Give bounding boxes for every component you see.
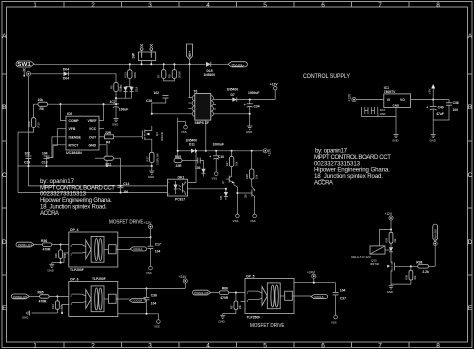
net label COOLS xyxy=(311,295,328,299)
junction xyxy=(115,103,117,105)
ground sec xyxy=(246,126,252,134)
svg-text:GND: GND xyxy=(387,290,393,294)
svg-text:T6: T6 xyxy=(194,90,198,94)
wire R6 right to VREF rail xyxy=(48,103,116,105)
svg-text:TLP250F: TLP250F xyxy=(247,315,261,319)
svg-text:+5V: +5V xyxy=(427,89,431,94)
svg-text:RT/CT: RT/CT xyxy=(69,143,80,147)
wire OP5 vcc xyxy=(294,282,336,284)
wire zeners to C7 node xyxy=(116,87,132,99)
svg-text:2: 2 xyxy=(168,194,169,196)
svg-text:IC6: IC6 xyxy=(67,112,72,116)
wire fb line2 xyxy=(18,192,168,194)
svg-text:104: 104 xyxy=(155,250,161,254)
zener D12 xyxy=(201,169,205,177)
svg-text:D04: D04 xyxy=(63,77,69,81)
relay K1 xyxy=(351,246,385,259)
svg-text:2: 2 xyxy=(91,2,95,9)
svg-text:R17: R17 xyxy=(146,156,150,162)
resistor R87 xyxy=(230,293,243,314)
net label PWM1-Q4 xyxy=(16,242,34,247)
svg-text:R36: R36 xyxy=(41,239,47,243)
svg-text:47uF: 47uF xyxy=(436,112,444,116)
zener D19 xyxy=(119,86,128,92)
resistor R35 xyxy=(54,245,67,263)
svg-text:A: A xyxy=(2,33,7,40)
connector +12V out xyxy=(263,148,271,157)
svg-text:GND: GND xyxy=(48,269,54,273)
resistor R27 column xyxy=(225,150,239,174)
svg-text:B: B xyxy=(2,104,6,111)
VSS under C17 xyxy=(146,266,152,275)
connector +12V rect out xyxy=(270,83,279,100)
wire VREF drop xyxy=(99,104,104,120)
wire OP6 bottom xyxy=(118,314,159,320)
svg-text:R38: R38 xyxy=(416,260,422,264)
net flag vertical xyxy=(433,224,438,241)
svg-text:OP_4: OP_4 xyxy=(70,228,79,232)
svg-text:1N5400: 1N5400 xyxy=(227,88,239,92)
svg-text:0.33R 5W: 0.33R 5W xyxy=(156,153,160,165)
ground under R17 xyxy=(148,171,154,179)
capacitor C13 xyxy=(42,152,50,167)
svg-text:R6: R6 xyxy=(40,107,44,111)
frame tick separators bottom xyxy=(64,342,409,348)
frame column numbers top xyxy=(33,2,440,9)
ground OP5 input xyxy=(218,314,225,324)
mosfet Q10 xyxy=(370,258,418,284)
opto driver OP_4 TLP250F xyxy=(69,228,118,272)
wire bus to T6 pin1 xyxy=(189,64,191,97)
wire OP4 vcc xyxy=(118,236,151,238)
svg-text:6: 6 xyxy=(321,2,325,9)
svg-text:4: 4 xyxy=(206,2,210,9)
svg-text:GND: GND xyxy=(218,320,224,324)
svg-text:VCC: VCC xyxy=(89,127,97,131)
text block left xyxy=(40,178,115,217)
wire D15 to HVIN label xyxy=(211,63,228,65)
svg-text:R13: R13 xyxy=(124,72,128,78)
svg-text:R28: R28 xyxy=(245,174,249,179)
wire aux winding drop xyxy=(177,118,179,151)
ground rail xyxy=(18,165,152,167)
junction xyxy=(151,165,153,167)
svg-text:1000uF: 1000uF xyxy=(248,91,259,95)
net label COOLR xyxy=(129,298,146,302)
svg-text:OP_5: OP_5 xyxy=(246,274,255,278)
junction xyxy=(59,103,61,105)
junction xyxy=(150,63,152,65)
capacitor C10 xyxy=(209,150,224,172)
svg-text:R27: R27 xyxy=(225,161,229,166)
wire OK1 collector to rail xyxy=(188,151,196,183)
resistor R4 22R xyxy=(99,131,140,145)
frame tick separators right xyxy=(468,74,473,275)
svg-text:VSS: VSS xyxy=(331,320,337,324)
svg-text:SW1: SW1 xyxy=(17,62,31,68)
svg-text:C14: C14 xyxy=(123,182,129,186)
wire VO out xyxy=(411,99,449,101)
svg-text:VO: VO xyxy=(400,98,405,102)
svg-text:GND: GND xyxy=(392,139,398,143)
svg-text:C: C xyxy=(2,172,7,179)
svg-text:470R: 470R xyxy=(220,296,229,300)
svg-text:R9: R9 xyxy=(168,74,172,78)
svg-text:R10: R10 xyxy=(37,122,41,128)
capacitor C38 100 xyxy=(433,100,459,120)
connector +24V OP6 xyxy=(179,275,188,288)
svg-text:102: 102 xyxy=(154,91,160,95)
svg-text:8: 8 xyxy=(436,2,440,9)
svg-text:E: E xyxy=(2,305,7,312)
ground OP6 input rotated xyxy=(22,311,30,320)
frame tick separators top xyxy=(64,2,409,8)
wire fb line1 xyxy=(28,185,167,187)
svg-text:FAN-SW: FAN-SW xyxy=(434,229,438,240)
ground C40 xyxy=(430,135,436,143)
capacitor C33 103 xyxy=(195,158,204,170)
frame tick separators left xyxy=(2,74,7,275)
resistor R7 xyxy=(157,63,166,78)
svg-text:+: + xyxy=(426,106,428,110)
wire OP5 out xyxy=(294,295,311,297)
wire to gnd OP5 xyxy=(223,313,236,315)
svg-text:D04: D04 xyxy=(63,67,69,71)
diode D04 xyxy=(63,67,69,80)
frame column numbers bottom xyxy=(33,342,440,349)
wire RTCT xyxy=(47,145,67,158)
svg-text:D: D xyxy=(2,239,7,246)
connector pad relay ctrl xyxy=(433,242,437,246)
resistor R5 xyxy=(110,83,124,92)
connector +12V relay xyxy=(384,212,393,233)
wire OP6 vcc xyxy=(118,287,186,289)
svg-text:B: B xyxy=(468,104,472,111)
svg-text:C28: C28 xyxy=(146,99,152,103)
wire R6 left xyxy=(34,104,38,118)
svg-text:100K: 100K xyxy=(133,72,137,79)
svg-text:TLP250F: TLP250F xyxy=(70,268,84,272)
svg-text:1000uF: 1000uF xyxy=(213,143,224,147)
svg-text:VSS: VSS xyxy=(233,219,239,223)
svg-text:GND: GND xyxy=(112,123,118,127)
svg-text:22R: 22R xyxy=(176,164,183,168)
capacitor C29 xyxy=(24,152,32,167)
capacitor C37 xyxy=(333,283,346,316)
diode D11 xyxy=(186,138,198,153)
resistor R17 xyxy=(146,143,160,171)
svg-text:D7: D7 xyxy=(231,93,235,97)
svg-text:E: E xyxy=(468,305,473,312)
resistor R36 470R xyxy=(34,239,69,252)
frame row letters right xyxy=(468,33,473,312)
wire Q7 to VSS xyxy=(234,185,237,214)
svg-text:VI: VI xyxy=(387,98,390,102)
svg-text:47k: 47k xyxy=(119,84,123,89)
wire relay branch xyxy=(380,230,392,246)
svg-text:C40: C40 xyxy=(438,106,444,110)
svg-text:GND: GND xyxy=(22,316,28,320)
wire C28 to drain node xyxy=(152,98,166,114)
svg-text:7: 7 xyxy=(378,342,382,349)
wire from J1 to D04 xyxy=(31,73,64,75)
svg-text:C10: C10 xyxy=(218,155,224,159)
svg-text:5: 5 xyxy=(263,2,267,9)
svg-text:10k: 10k xyxy=(238,304,242,309)
resistor R86 470R xyxy=(211,287,245,300)
zener D18 xyxy=(129,86,138,92)
svg-text:HSK: HSK xyxy=(380,112,386,116)
svg-text:10k: 10k xyxy=(255,174,259,179)
svg-text:100k: 100k xyxy=(27,121,31,128)
net label COOLF xyxy=(130,247,147,251)
net label HVIN xyxy=(228,62,247,67)
svg-text:R34: R34 xyxy=(51,304,55,309)
VSS OP5 xyxy=(331,315,337,324)
svg-text:C34: C34 xyxy=(254,105,260,109)
svg-text:1C7: 1C7 xyxy=(110,100,116,104)
wire sense divider left xyxy=(27,76,29,186)
svg-text:SW: SW xyxy=(132,52,136,58)
connector J1 xyxy=(23,68,31,76)
svg-text:R5: R5 xyxy=(110,85,114,89)
capacitor C34 1000uF xyxy=(244,91,260,126)
junction xyxy=(141,63,143,65)
wire SW to bus 2 xyxy=(150,61,152,65)
resistor R85 470R xyxy=(29,291,69,304)
svg-text:1N5400: 1N5400 xyxy=(204,73,216,77)
svg-text:VSS: VSS xyxy=(146,271,152,275)
svg-text:MOSFET DRIVE: MOSFET DRIVE xyxy=(109,220,144,226)
wire to gnd OP6 xyxy=(32,312,58,314)
resistor R34 xyxy=(51,296,64,313)
IC6 UC3843N xyxy=(66,112,99,155)
VSS lower1 xyxy=(233,214,239,223)
svg-text:100: 100 xyxy=(453,108,459,112)
wire drain to T6 xyxy=(152,113,189,115)
svg-text:R29: R29 xyxy=(385,237,389,242)
svg-text:SMPS XF: SMPS XF xyxy=(195,121,209,125)
capacitor C40 47uF xyxy=(426,100,444,135)
svg-text:HV+: HV+ xyxy=(188,51,192,58)
wire to gnd OP4 xyxy=(52,262,64,264)
ground under C7 xyxy=(112,119,119,127)
resistor R6 10k xyxy=(38,98,48,111)
svg-text:6: 6 xyxy=(321,342,325,349)
wire IC1 gnd xyxy=(395,107,397,134)
svg-text:OP_6: OP_6 xyxy=(70,278,79,282)
switch SW xyxy=(132,44,156,60)
svg-text:C38: C38 xyxy=(453,101,459,105)
svg-text:R86: R86 xyxy=(222,287,228,291)
text block right xyxy=(314,148,391,187)
wire to IC1 xyxy=(356,99,384,101)
resistor R29 xyxy=(385,232,398,247)
net label PWM2-Q6 xyxy=(11,294,29,299)
svg-text:2.2k: 2.2k xyxy=(422,270,429,274)
svg-text:1: 1 xyxy=(33,2,37,9)
capacitor C7 100uF xyxy=(110,100,129,119)
svg-text:D18: D18 xyxy=(135,86,139,92)
resistor R15 xyxy=(174,150,198,168)
diode D20 flyback xyxy=(389,247,393,258)
capacitor C28 102 xyxy=(146,91,169,103)
svg-text:+24V: +24V xyxy=(179,275,188,279)
svg-text:100uF: 100uF xyxy=(119,108,129,112)
svg-text:+12V: +12V xyxy=(268,148,272,157)
svg-text:+: + xyxy=(209,155,211,159)
svg-text:TLP250F: TLP250F xyxy=(92,277,106,281)
capacitor C17 xyxy=(148,237,161,266)
resistor R10 100k xyxy=(27,118,41,128)
wire COMP drop xyxy=(61,104,67,120)
svg-text:470R: 470R xyxy=(43,248,52,252)
svg-text:104: 104 xyxy=(42,152,48,156)
svg-text:4: 4 xyxy=(206,342,210,349)
svg-text:10k: 10k xyxy=(235,161,239,166)
ground IC1 xyxy=(392,135,398,143)
svg-text:VREF: VREF xyxy=(88,119,97,123)
resistor R39 xyxy=(391,265,417,284)
VSS lower2 xyxy=(250,214,256,223)
transistor Q7 xyxy=(221,174,234,185)
svg-text:GND: GND xyxy=(148,175,154,179)
svg-text:+12V: +12V xyxy=(270,83,279,87)
opto driver OP_5 TLP250F xyxy=(241,274,295,319)
svg-text:+12V: +12V xyxy=(384,212,393,216)
wire SW to bus xyxy=(141,61,143,65)
connector +24V OP5 xyxy=(307,270,316,282)
svg-text:GND: GND xyxy=(89,143,97,147)
svg-text:GND: GND xyxy=(393,104,401,108)
svg-text:IRF640: IRF640 xyxy=(160,131,164,141)
power flag +5V xyxy=(427,84,435,100)
svg-text:D11: D11 xyxy=(189,143,195,147)
resistor R11 xyxy=(95,156,121,166)
wire 12V rail xyxy=(178,150,191,152)
wire D04 to C7 column xyxy=(68,74,116,104)
svg-text:C17: C17 xyxy=(155,242,161,246)
VSS OP6 xyxy=(154,320,160,329)
wire VFB xyxy=(53,129,66,146)
mosfet Q4 xyxy=(140,126,164,143)
ground OP4 input xyxy=(48,263,55,273)
svg-text:7: 7 xyxy=(378,2,382,9)
connector +12V in xyxy=(348,93,357,102)
svg-text:C36: C36 xyxy=(151,294,157,298)
resistor R13 xyxy=(124,63,138,86)
svg-text:Q8: Q8 xyxy=(244,194,248,198)
svg-text:10k: 10k xyxy=(38,98,44,102)
wire OP4 out xyxy=(118,249,130,251)
resistor R9 xyxy=(168,63,182,78)
svg-text:200R: 200R xyxy=(178,71,182,78)
frame row letters left xyxy=(2,33,7,312)
svg-text:470R: 470R xyxy=(39,299,48,303)
svg-text:ACCRA: ACCRA xyxy=(40,210,60,217)
wire relay to drain xyxy=(385,249,391,251)
svg-text:GND: GND xyxy=(246,130,252,134)
wire T6 bottom drop xyxy=(205,120,207,151)
svg-text:ISENSE: ISENSE xyxy=(69,135,82,139)
svg-text:VFB: VFB xyxy=(69,127,76,131)
heatsink KK2 xyxy=(362,107,397,117)
opto driver OP_6 TLP250F xyxy=(69,277,118,316)
svg-text:3: 3 xyxy=(185,194,186,196)
resistor R28 column xyxy=(245,150,259,179)
svg-text:PC817: PC817 xyxy=(175,198,185,202)
svg-text:104: 104 xyxy=(151,302,157,306)
wire OP4 pin3 stub xyxy=(64,253,69,263)
wire OP6 out xyxy=(118,298,130,300)
svg-text:UC3843N: UC3843N xyxy=(66,151,82,155)
diode D15 xyxy=(204,62,216,77)
svg-text:A: A xyxy=(468,33,473,40)
svg-text:R35: R35 xyxy=(54,253,58,258)
wire R11 to C14 xyxy=(120,158,122,184)
capacitor C36 xyxy=(144,288,157,313)
svg-text:8: 8 xyxy=(436,342,440,349)
wire ISENSE xyxy=(52,137,66,158)
transistor Q8 xyxy=(236,179,254,214)
wire OK1 emitter to Q7 base xyxy=(188,188,226,190)
VSS near T6 xyxy=(178,122,188,134)
svg-text:VSS: VSS xyxy=(181,130,187,134)
wire T6 sec return xyxy=(217,113,250,115)
svg-text:CELA-T-P-12V: CELA-T-P-12V xyxy=(351,255,371,259)
regulator IC1 7805TV xyxy=(384,86,411,108)
wire VCC stub xyxy=(99,128,104,130)
capacitor C14 xyxy=(118,182,130,194)
svg-text:R39: R39 xyxy=(405,274,409,279)
svg-text:4: 4 xyxy=(185,182,186,184)
svg-text:IRF740: IRF740 xyxy=(370,262,380,266)
svg-text:104: 104 xyxy=(340,289,346,293)
svg-text:C: C xyxy=(468,172,473,179)
svg-text:MOSFET DRIVE: MOSFET DRIVE xyxy=(250,323,285,329)
svg-text:5Z1: 5Z1 xyxy=(219,195,223,200)
svg-text:C29: C29 xyxy=(24,161,30,165)
VSS under C10 xyxy=(212,172,219,181)
wire 100k bottom to fb rail xyxy=(18,127,34,132)
svg-text:3: 3 xyxy=(148,342,152,349)
zener D13 xyxy=(219,189,228,200)
resistor R38 xyxy=(416,260,435,273)
net label PWM1-Q5 xyxy=(193,290,211,295)
svg-text:VSS: VSS xyxy=(250,219,256,223)
svg-text:+: + xyxy=(244,103,246,107)
svg-text:+24V: +24V xyxy=(307,270,316,274)
net label SW1 xyxy=(16,61,34,68)
ground relay xyxy=(387,284,394,294)
svg-text:R87: R87 xyxy=(230,304,234,309)
wire main HV bus xyxy=(34,63,206,65)
svg-text:ACCRA: ACCRA xyxy=(314,179,334,186)
svg-text:IC1: IC1 xyxy=(384,86,389,90)
svg-text:R7: R7 xyxy=(157,74,161,78)
svg-text:22R: 22R xyxy=(105,131,112,135)
wire gate pullup riser xyxy=(434,246,436,267)
wire IC gnd xyxy=(99,145,107,166)
svg-text:1: 1 xyxy=(33,342,37,349)
wire fb vertical xyxy=(17,132,19,192)
transformer T6 xyxy=(188,90,217,126)
svg-text:10k: 10k xyxy=(413,275,417,280)
svg-text:COMP: COMP xyxy=(69,119,80,123)
svg-text:CONTROL SUPPLY: CONTROL SUPPLY xyxy=(303,73,351,80)
optocoupler OK1 PC817 xyxy=(168,176,188,202)
svg-text:VSS: VSS xyxy=(154,325,160,329)
